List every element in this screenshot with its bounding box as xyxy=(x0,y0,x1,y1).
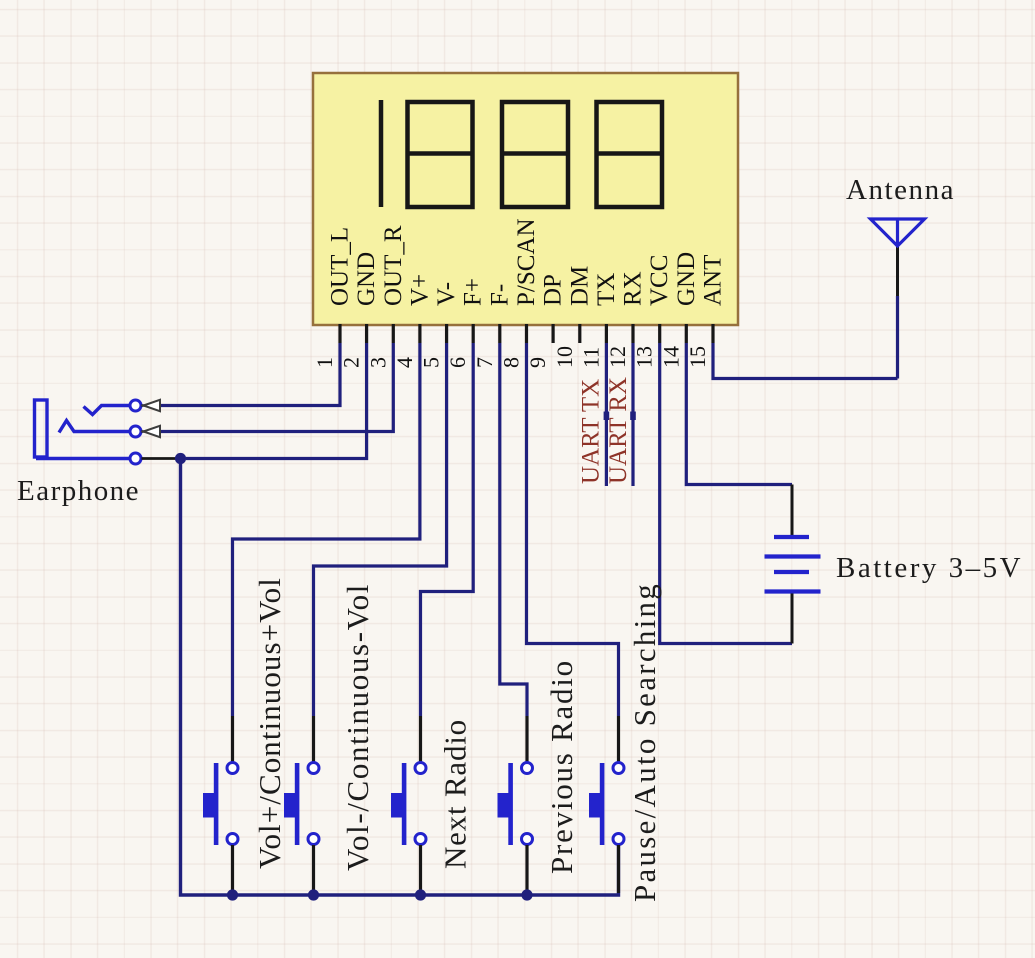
battery BT1 plate long 1 xyxy=(765,554,821,558)
display digit 8 (box 4) xyxy=(597,102,663,207)
pin 15 stub xyxy=(711,324,714,343)
svg-text:Vol-/Continuous-Vol: Vol-/Continuous-Vol xyxy=(340,583,375,871)
svg-text:Battery 3–5V: Battery 3–5V xyxy=(836,552,1023,584)
pin 13 number xyxy=(632,346,657,368)
svg-text:5: 5 xyxy=(419,357,444,368)
svg-text:Antenna: Antenna xyxy=(846,174,955,206)
switch SW5 bottom terminal xyxy=(613,834,624,845)
svg-text:Previous Radio: Previous Radio xyxy=(544,659,579,874)
battery BT1 plate short 1 xyxy=(774,535,809,539)
switch SW2 actuator bar xyxy=(295,763,300,845)
pin 4 stub xyxy=(418,324,421,343)
net label UART RX xyxy=(605,377,632,484)
pin 2 stub xyxy=(365,324,368,343)
switch SW4 top terminal xyxy=(522,763,533,774)
wire pin13 VCC to battery bottom xyxy=(660,343,792,644)
pin 6 label F+ xyxy=(460,278,487,306)
svg-text:DM: DM xyxy=(566,266,593,306)
switch SW3 top terminal xyxy=(415,763,426,774)
svg-text:V+: V+ xyxy=(406,274,433,306)
switch SW1 bottom lead xyxy=(231,845,234,893)
svg-text:6: 6 xyxy=(445,357,470,368)
svg-text:11: 11 xyxy=(578,347,603,368)
svg-text:F+: F+ xyxy=(460,278,487,306)
earphone tip terminal circle xyxy=(130,400,141,411)
pin 9 number xyxy=(525,357,550,368)
switch SW4 bottom lead xyxy=(525,845,528,893)
svg-text:GND: GND xyxy=(673,252,700,306)
svg-text:8: 8 xyxy=(499,357,524,368)
label Earphone xyxy=(17,475,140,507)
connector arrow xyxy=(142,400,161,411)
svg-text:Next Radio: Next Radio xyxy=(438,719,473,869)
pin 1 stub xyxy=(338,324,341,343)
pin 8 label P/SCAN xyxy=(513,218,540,306)
battery BT1 bottom lead xyxy=(791,594,794,644)
switch SW2 bottom lead xyxy=(312,845,315,893)
svg-text:14: 14 xyxy=(658,346,683,368)
switch SW1 top lead xyxy=(231,716,234,762)
switch SW3 top lead xyxy=(419,716,422,762)
pin 11 label TX xyxy=(593,273,620,306)
pin 7 label F- xyxy=(486,284,513,306)
label Next Radio xyxy=(438,719,473,869)
svg-text:P/SCAN: P/SCAN xyxy=(513,218,540,306)
svg-text:9: 9 xyxy=(525,357,550,368)
svg-text:2: 2 xyxy=(339,357,364,368)
FM radio module U1 body xyxy=(313,73,738,325)
pin 12 number xyxy=(605,346,630,368)
antenna symbol E1 xyxy=(871,219,925,246)
pin 10 number xyxy=(552,346,577,368)
pin 3 stub xyxy=(392,324,395,343)
switch SW5 bottom lead xyxy=(617,845,620,893)
pin 2 label GND xyxy=(353,252,380,306)
switch SW5 top terminal xyxy=(613,763,624,774)
pin 12 stub xyxy=(631,324,634,343)
svg-text:OUT_R: OUT_R xyxy=(380,225,407,306)
battery BT1 plate long 2 xyxy=(765,589,821,593)
wire pin7 F- to SW4 xyxy=(500,343,527,716)
switch SW4 actuator bar xyxy=(508,763,513,845)
earphone sleeve contact line xyxy=(36,457,130,460)
net label UART TX xyxy=(578,379,605,484)
switch SW3 bottom lead xyxy=(419,845,422,893)
battery BT1 plate short 2 xyxy=(774,570,809,574)
svg-text:RX: RX xyxy=(620,271,647,306)
junction dot ground node xyxy=(175,453,186,464)
antenna lead navy xyxy=(896,296,899,379)
svg-text:13: 13 xyxy=(632,346,657,368)
pin 1 label OUT_L xyxy=(327,227,354,306)
svg-text:12: 12 xyxy=(605,346,630,368)
svg-text:15: 15 xyxy=(685,346,710,368)
pin 1 number xyxy=(312,357,337,368)
wire pin3 OUT_R to earphone ring xyxy=(160,343,393,432)
svg-text:GND: GND xyxy=(353,252,380,306)
pin 5 number xyxy=(419,357,444,368)
switch SW5 button cap xyxy=(589,793,601,818)
wire ground bus to buttons xyxy=(181,459,619,896)
label Pause/Auto Searching xyxy=(627,582,662,902)
battery BT1 top lead xyxy=(791,485,794,536)
switch SW1 button cap xyxy=(203,793,215,818)
svg-text:V-: V- xyxy=(433,282,460,306)
pin 13 stub xyxy=(658,324,661,343)
wire pin8 P/SCAN to SW5 xyxy=(527,343,619,716)
wire pin1 OUT_L to earphone tip xyxy=(160,343,340,406)
connector arrow xyxy=(142,426,161,437)
pin 10 label DM xyxy=(566,266,593,306)
pin 14 label GND xyxy=(673,252,700,306)
switch SW2 button cap xyxy=(284,793,296,818)
display digit 8 (box 2) xyxy=(408,102,473,207)
pin 13 label VCC xyxy=(646,255,673,306)
switch SW1 actuator bar xyxy=(214,763,219,845)
wire pin14 GND to battery top xyxy=(686,343,792,485)
switch SW3 actuator bar xyxy=(402,763,407,845)
switch SW3 bottom terminal xyxy=(415,834,426,845)
wire pin11 TX stub (UART TX) xyxy=(605,343,608,486)
label Antenna xyxy=(846,174,955,206)
switch SW4 bottom terminal xyxy=(522,834,533,845)
pin 9 stub xyxy=(551,324,554,343)
svg-text:ANT: ANT xyxy=(700,255,727,306)
pin 7 stub xyxy=(498,324,501,343)
pin 15 number xyxy=(685,346,710,368)
wire pin15 ANT to antenna xyxy=(713,343,898,379)
earphone sleeve terminal circle xyxy=(130,453,141,464)
switch SW2 top lead xyxy=(312,716,315,762)
svg-text:VCC: VCC xyxy=(646,255,673,306)
pin 3 label OUT_R xyxy=(380,225,407,306)
label Previous Radio xyxy=(544,659,579,874)
display digit 8 (box 3) xyxy=(502,102,568,207)
pin 15 label ANT xyxy=(700,255,727,306)
wire pin4 V+ to SW1 xyxy=(233,343,420,716)
junction dot SW4 on ground bus xyxy=(521,889,532,900)
earphone ring contact (switch) xyxy=(59,421,130,433)
switch SW4 top lead xyxy=(525,716,528,762)
svg-text:Pause/Auto Searching: Pause/Auto Searching xyxy=(627,582,662,902)
svg-text:1: 1 xyxy=(312,357,337,368)
switch SW1 top terminal xyxy=(227,763,238,774)
pin 8 number xyxy=(499,357,524,368)
switch SW1 bottom terminal xyxy=(227,834,238,845)
port marker pin11 TX xyxy=(604,412,610,421)
antenna lead black xyxy=(896,246,899,296)
pin 14 number xyxy=(658,346,683,368)
switch SW3 button cap xyxy=(391,793,403,818)
display digit 1 segment xyxy=(379,100,384,207)
switch SW2 bottom terminal xyxy=(308,834,319,845)
svg-text:3: 3 xyxy=(365,357,390,368)
svg-text:UART TX: UART TX xyxy=(578,379,605,484)
pin 11 number xyxy=(578,347,603,368)
svg-text:DP: DP xyxy=(540,274,567,306)
earphone sleeve black link xyxy=(142,457,177,460)
wire pin6 F+ to SW3 xyxy=(421,343,474,716)
svg-text:7: 7 xyxy=(472,357,497,368)
pin 10 stub xyxy=(578,324,581,343)
pin 4 label V+ xyxy=(406,274,433,306)
pin 5 label V- xyxy=(433,282,460,306)
svg-text:4: 4 xyxy=(392,357,417,368)
switch SW5 actuator bar xyxy=(600,763,605,845)
switch SW4 button cap xyxy=(498,793,510,818)
svg-text:Vol+/Continuous+Vol: Vol+/Continuous+Vol xyxy=(252,577,287,869)
svg-text:OUT_L: OUT_L xyxy=(327,227,354,306)
port marker pin12 RX xyxy=(630,412,636,421)
wire pin5 V- to SW2 xyxy=(314,343,447,716)
junction dot SW1 on ground bus xyxy=(227,889,238,900)
svg-text:Earphone: Earphone xyxy=(17,475,140,507)
switch SW2 top terminal xyxy=(308,763,319,774)
pin 5 stub xyxy=(445,324,448,343)
earphone ring terminal circle xyxy=(130,426,141,437)
wire pin12 RX stub (UART RX) xyxy=(631,343,634,486)
label Vol-/Continuous-Vol xyxy=(340,583,375,871)
junction dot SW2 on ground bus xyxy=(308,889,319,900)
wire pin2 GND to earphone sleeve junction xyxy=(186,343,367,459)
pin 8 stub xyxy=(525,324,528,343)
pin 2 number xyxy=(339,357,364,368)
earphone tip contact (switch) xyxy=(84,406,130,415)
label Battery 3-5V xyxy=(836,552,1023,584)
pin 14 stub xyxy=(685,324,688,343)
switch SW5 top lead xyxy=(617,716,620,762)
pin 3 number xyxy=(365,357,390,368)
svg-text:10: 10 xyxy=(552,346,577,368)
svg-text:TX: TX xyxy=(593,273,620,306)
label Vol+/Continuous+Vol xyxy=(252,577,287,869)
pin 9 label DP xyxy=(540,274,567,306)
pin 7 number xyxy=(472,357,497,368)
pin 6 stub xyxy=(472,324,475,343)
pin 12 label RX xyxy=(620,271,647,306)
pin 6 number xyxy=(445,357,470,368)
svg-text:F-: F- xyxy=(486,284,513,306)
pin 11 stub xyxy=(605,324,608,343)
earphone jack J1 barrel xyxy=(35,400,48,457)
svg-text:UART RX: UART RX xyxy=(605,377,632,484)
pin 4 number xyxy=(392,357,417,368)
junction dot SW3 on ground bus xyxy=(415,889,426,900)
